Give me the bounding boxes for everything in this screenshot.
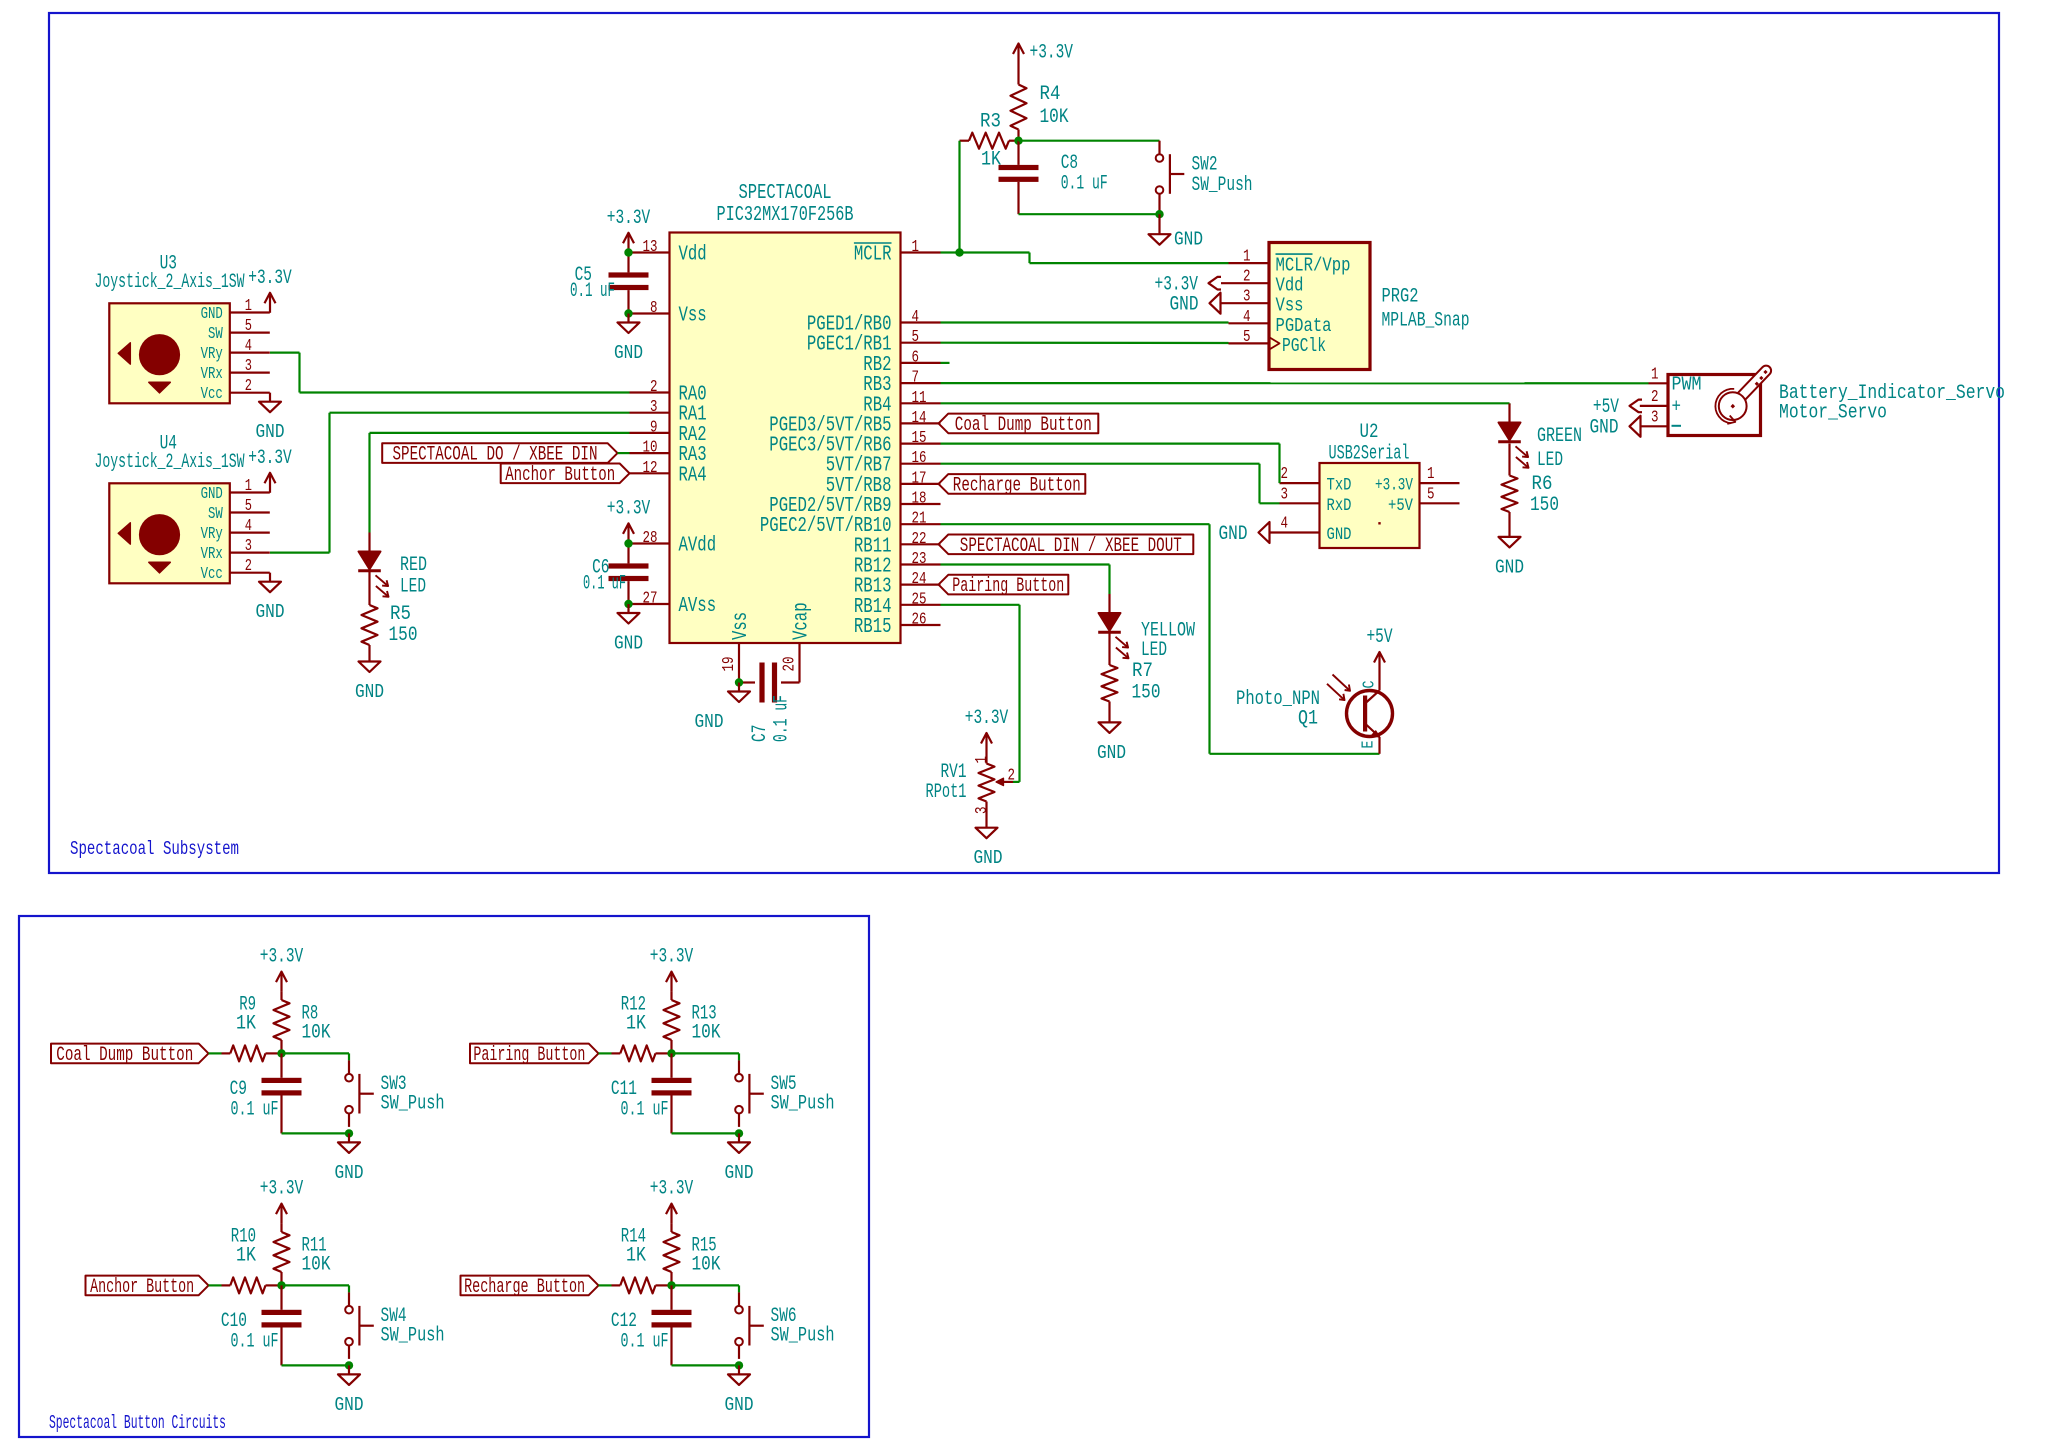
power label +3.3V at PRG2 Vdd — [1155, 274, 1222, 297]
resistor R12 1K — [612, 993, 672, 1061]
svg-text:GND: GND — [201, 484, 223, 503]
wire PGEC1/RB1 to PGClk — [941, 342, 1229, 344]
svg-text:150: 150 — [1132, 682, 1161, 705]
ic U1 pin 28 AVdd (left) — [630, 528, 717, 558]
connector PRG2 MPLAB_Snap body — [1269, 243, 1470, 370]
svg-text:+3.3V: +3.3V — [607, 207, 651, 230]
junction Vdd pin 13 — [624, 248, 632, 256]
ic U1 pin 1 MCLR (right) — [854, 237, 941, 267]
ground GND below RV1 — [974, 828, 1003, 870]
svg-text:10: 10 — [643, 438, 658, 457]
connector PRG2 pin 2 Vdd — [1221, 267, 1304, 297]
ic U1 pin 25 RB14 (right) — [854, 589, 941, 619]
capacitor C11 0.1 uF — [611, 1053, 692, 1133]
wire RB3 to servo PWM — [941, 382, 1649, 384]
svg-text:+3.3V: +3.3V — [965, 707, 1009, 730]
svg-text:+5V: +5V — [1366, 626, 1393, 649]
svg-text:GND: GND — [974, 847, 1003, 869]
junction Anchor Button node — [277, 1281, 285, 1289]
svg-text:5: 5 — [245, 496, 252, 515]
svg-text:0.1 uF: 0.1 uF — [570, 280, 615, 303]
svg-text:GND: GND — [1170, 294, 1199, 317]
svg-text:GND: GND — [1590, 417, 1619, 440]
svg-text:150: 150 — [389, 624, 418, 647]
svg-text:GND: GND — [335, 1162, 364, 1184]
svg-text:28: 28 — [643, 528, 658, 547]
svg-text:GND: GND — [1097, 742, 1126, 764]
svg-text:3: 3 — [1243, 287, 1251, 306]
capacitor C12 0.1 uF — [611, 1285, 692, 1365]
ic U1 pin 6 RB2 (right) — [863, 347, 940, 377]
connector PRG2 pin 5 PGClk — [1229, 327, 1327, 357]
junction Vss pin 19 node — [735, 678, 743, 686]
svg-text:PIC32MX170F256B: PIC32MX170F256B — [717, 203, 854, 227]
svg-text:8: 8 — [650, 298, 658, 317]
connector PRG2 pin 3 Vss — [1221, 287, 1304, 317]
ic U1 pin 20 Vcap (bottom) — [780, 602, 814, 682]
svg-text:4: 4 — [245, 336, 252, 355]
wire RA2 to RED LED — [370, 433, 630, 533]
net label Anchor Button — [86, 1276, 209, 1299]
switch SW3 SW_Push — [345, 1060, 444, 1127]
switch SW5 SW_Push — [735, 1060, 834, 1127]
net label Recharge Button — [461, 1276, 599, 1299]
wire Pairing Button label to R12 — [599, 1052, 612, 1054]
net label SPECTACOAL DO / XBEE DIN — [382, 443, 629, 466]
svg-text:SW: SW — [208, 324, 223, 343]
connector M1 pin 1 PWM — [1649, 364, 1669, 383]
ic U1 pin 15 PGEC3/5VT/RB6 (right) — [769, 428, 940, 458]
svg-text:7: 7 — [912, 368, 920, 387]
svg-text:10K: 10K — [692, 1021, 722, 1044]
svg-text:6: 6 — [912, 347, 920, 366]
resistor R10 1K — [222, 1225, 282, 1293]
svg-text:4: 4 — [1243, 307, 1251, 326]
svg-text:SW_Push: SW_Push — [771, 1324, 835, 1347]
svg-text:VRx: VRx — [201, 364, 223, 383]
net label Anchor Button — [501, 464, 630, 487]
ic U2 pin 5 +5V — [1388, 484, 1460, 516]
connector U3 Joystick_2_Axis_1SW — [95, 252, 270, 403]
connector U4 Joystick_2_Axis_1SW — [95, 432, 270, 583]
ground GND at U3 pin 2 — [256, 393, 285, 444]
switch SW2 SW_Push — [1156, 141, 1253, 215]
svg-text:1: 1 — [912, 237, 920, 256]
ic U1 pin 16 5VT/RB7 (right) — [826, 448, 941, 478]
svg-text:Pairing Button: Pairing Button — [952, 575, 1064, 598]
ic U1 pin 12 RA4 (left) — [630, 458, 707, 488]
svg-text:Vss: Vss — [679, 304, 707, 328]
svg-text:RED: RED — [400, 554, 427, 577]
ground GND below SW2 — [1149, 214, 1204, 251]
resistor R9 1K — [222, 993, 282, 1061]
svg-text:SPECTACOAL: SPECTACOAL — [739, 181, 832, 205]
ic U2 pin 3 RxD — [1280, 484, 1352, 516]
junction R3-R4-C8 node — [1014, 137, 1022, 145]
svg-text:22: 22 — [912, 529, 927, 548]
switch SW6 SW_Push — [735, 1292, 834, 1359]
svg-text:GREEN: GREEN — [1537, 425, 1582, 448]
ic U1 pin 19 Vss (bottom) — [719, 612, 753, 683]
net label Coal Dump Button — [51, 1044, 209, 1067]
svg-text:TxD: TxD — [1327, 477, 1352, 496]
svg-text:1K: 1K — [236, 1012, 257, 1035]
net label Pairing Button — [470, 1044, 599, 1067]
ground GND below SW4 — [335, 1365, 364, 1416]
ground GND below C6 — [614, 604, 643, 655]
svg-text:SW_Push: SW_Push — [381, 1324, 445, 1347]
wire Coal Dump Button label to R9 — [209, 1052, 222, 1054]
svg-text:C: C — [1360, 680, 1379, 688]
power label GND at U2 pin 4 — [1219, 522, 1270, 546]
svg-text:LED: LED — [1141, 639, 1167, 662]
sheet title Spectacoal Subsystem — [70, 838, 239, 860]
resistor R5 150 — [362, 572, 418, 662]
svg-text:14: 14 — [912, 408, 927, 427]
svg-text:1K: 1K — [626, 1244, 647, 1267]
power +3.3V above R8 — [260, 946, 304, 992]
net label Recharge Button (RB8) — [939, 474, 1086, 497]
svg-text:1: 1 — [245, 476, 252, 495]
svg-text:PWM: PWM — [1672, 374, 1702, 396]
svg-text:2: 2 — [1008, 766, 1016, 785]
svg-text:R5: R5 — [390, 603, 411, 626]
ground GND at U4 pin 2 — [256, 573, 285, 624]
capacitor C10 0.1 uF — [221, 1285, 302, 1365]
svg-text:USB2Serial: USB2Serial — [1329, 443, 1410, 466]
ic U1 pin 4 PGED1/RB0 (right) — [807, 307, 941, 337]
junction Pairing Button node — [667, 1049, 675, 1057]
ground GND below C7 — [695, 683, 751, 734]
svg-text:Spectacoal Button Circuits: Spectacoal Button Circuits — [49, 1412, 226, 1434]
svg-text:VRx: VRx — [201, 544, 223, 563]
led GREEN LED — [1498, 404, 1582, 473]
ground GND below R7 — [1097, 722, 1126, 764]
wire junction to SW3 — [282, 1053, 350, 1060]
svg-text:AVss: AVss — [679, 594, 717, 618]
ground GND below R5 — [355, 662, 384, 704]
connector M1 pin 3 - — [1640, 407, 1668, 426]
connector M1 pin 2 + — [1640, 387, 1668, 406]
svg-text:Vdd: Vdd — [1276, 275, 1304, 297]
wire junction to SW4 — [282, 1285, 350, 1292]
svg-text:SW_Push: SW_Push — [1192, 174, 1253, 197]
ic U1 pin 9 RA2 (left) — [630, 417, 707, 447]
svg-text:3: 3 — [245, 356, 252, 375]
svg-text:18: 18 — [912, 489, 927, 508]
ic U1 pin 21 PGEC2/5VT/RB10 (right) — [760, 509, 941, 539]
svg-text:10K: 10K — [302, 1253, 332, 1276]
svg-text:11: 11 — [912, 388, 927, 407]
wire RB4 to GREEN LED — [941, 403, 1510, 404]
svg-text:Vcap: Vcap — [790, 602, 814, 640]
wire U4 VRx to RA1 — [270, 413, 630, 553]
ic U2 USB2Serial body — [1320, 421, 1420, 548]
svg-text:LED: LED — [1537, 449, 1563, 472]
svg-text:10K: 10K — [302, 1021, 332, 1044]
ic U1 pin 8 Vss (left) — [630, 298, 707, 328]
ground GND below SW3 — [335, 1133, 364, 1184]
wire RB10 to Q1 emitter — [941, 524, 1380, 754]
svg-text:20: 20 — [780, 657, 799, 672]
led RED LED — [358, 533, 427, 599]
svg-text:MCLR/Vpp: MCLR/Vpp — [1276, 255, 1351, 277]
power +3.3V above R11 — [260, 1178, 304, 1224]
sheet border Spectacoal Button Circuits — [19, 916, 869, 1437]
junction SW2 bottom node — [1155, 210, 1163, 218]
svg-text:MPLAB_Snap: MPLAB_Snap — [1382, 310, 1470, 333]
capacitor C9 0.1 uF — [230, 1053, 302, 1133]
svg-text:Coal Dump Button: Coal Dump Button — [56, 1044, 193, 1067]
svg-text:PRG2: PRG2 — [1382, 286, 1419, 309]
svg-text:R4: R4 — [1040, 83, 1061, 106]
junction SW5 bottom node — [735, 1129, 743, 1137]
svg-text:4: 4 — [1281, 514, 1289, 533]
svg-text:GND: GND — [725, 1162, 754, 1184]
ground GND below R6 — [1495, 537, 1524, 579]
svg-text:GND: GND — [725, 1394, 754, 1416]
capacitor C8 0.1 uF — [999, 141, 1108, 215]
ground GND below SW6 — [725, 1365, 754, 1416]
wire Anchor Button label to R10 — [209, 1284, 222, 1286]
svg-text:0.1 uF: 0.1 uF — [583, 572, 626, 595]
wire C10 bottom to SW4 bottom — [282, 1364, 350, 1366]
wire C9 bottom to SW3 bottom — [282, 1132, 350, 1134]
svg-text:SW_Push: SW_Push — [771, 1092, 835, 1115]
ic U1 pin 23 RB12 (right) — [854, 549, 941, 579]
resistor R8 10K — [274, 992, 332, 1054]
junction Recharge Button node — [667, 1281, 675, 1289]
svg-text:GND: GND — [1219, 523, 1248, 546]
svg-text:Vss: Vss — [1276, 295, 1304, 317]
connector PRG2 pin 1 MCLR/Vpp — [1229, 247, 1351, 277]
resistor R14 1K — [612, 1225, 672, 1293]
junction SW6 bottom node — [735, 1361, 743, 1369]
svg-text:1: 1 — [1651, 364, 1659, 383]
connector PRG2 pin 4 PGData — [1229, 307, 1332, 337]
svg-text:0.1 uF: 0.1 uF — [231, 1330, 279, 1353]
svg-text:5: 5 — [245, 316, 252, 335]
svg-text:+3.3V: +3.3V — [248, 447, 292, 470]
svg-text:VRy: VRy — [201, 344, 223, 363]
junction AVss pin 27 — [624, 600, 632, 608]
wire RB2 stub — [941, 362, 950, 364]
svg-text:24: 24 — [912, 569, 927, 588]
wire PGED1/RB0 to PGData — [941, 321, 1229, 323]
svg-text:+3.3V: +3.3V — [248, 267, 292, 290]
svg-text:RB15: RB15 — [854, 615, 892, 639]
svg-text:10K: 10K — [692, 1253, 722, 1276]
svg-text:0.1 uF: 0.1 uF — [621, 1330, 669, 1353]
svg-text:Anchor Button: Anchor Button — [90, 1276, 194, 1299]
svg-text:3: 3 — [1651, 407, 1659, 426]
potentiometer RV1 RPot1 — [926, 753, 1016, 828]
svg-text:SW: SW — [208, 504, 223, 523]
svg-text:1K: 1K — [236, 1244, 257, 1267]
svg-text:2: 2 — [1281, 464, 1289, 483]
ic U1 pin 22 RB11 (right) — [854, 529, 941, 559]
resistor R4 10K — [1011, 64, 1070, 141]
wire C8 bottom to SW2 bottom — [1019, 213, 1160, 215]
ic U2 pin 2 TxD — [1280, 464, 1352, 496]
svg-text:RPot1: RPot1 — [926, 781, 967, 804]
svg-text:+3.3V: +3.3V — [650, 1178, 694, 1201]
svg-text:1K: 1K — [626, 1012, 647, 1035]
svg-text:Q1: Q1 — [1298, 708, 1318, 731]
power +3.3V at Vdd — [607, 207, 651, 253]
svg-text:17: 17 — [912, 468, 927, 487]
svg-text:150: 150 — [1530, 494, 1559, 517]
svg-text:GND: GND — [355, 681, 384, 703]
svg-text:2: 2 — [650, 377, 658, 396]
svg-text:PGClk: PGClk — [1282, 335, 1326, 357]
resistor R6 150 — [1502, 444, 1560, 537]
svg-text:Spectacoal Subsystem: Spectacoal Subsystem — [70, 838, 239, 860]
svg-text:Vcc: Vcc — [201, 384, 223, 403]
svg-text:0.1 uF: 0.1 uF — [1061, 173, 1108, 196]
wire U3 VRy to RA0 — [270, 353, 630, 393]
svg-text:5: 5 — [1427, 484, 1435, 503]
wire Recharge Button label to R14 — [599, 1284, 612, 1286]
ground GND below SW5 — [725, 1133, 754, 1184]
svg-text:23: 23 — [912, 549, 927, 568]
svg-text:R6: R6 — [1532, 473, 1553, 496]
svg-text:5: 5 — [912, 327, 920, 346]
svg-text:1: 1 — [972, 756, 991, 764]
svg-text:GND: GND — [1495, 556, 1524, 578]
ic U2 pin 1 +3.3V — [1375, 464, 1460, 496]
svg-text:5: 5 — [1243, 327, 1251, 346]
svg-text:1K: 1K — [981, 149, 1002, 172]
svg-text:+5V: +5V — [1388, 497, 1413, 516]
svg-text:U2: U2 — [1360, 421, 1379, 444]
ic U2 pin 4 GND — [1270, 514, 1352, 546]
svg-text:GND: GND — [614, 342, 643, 364]
junction SW4 bottom node — [345, 1361, 353, 1369]
wire C11 bottom to SW5 bottom — [672, 1132, 740, 1134]
power label GND at servo pin 3 — [1590, 416, 1641, 440]
ic U1 pin 2 RA0 (left) — [630, 377, 707, 407]
wire RB14 to RV1 wiper — [941, 605, 1020, 782]
ic U1 pin 5 PGEC1/RB1 (right) — [807, 327, 941, 357]
capacitor C5 0.1 uF — [570, 253, 649, 314]
svg-text:10K: 10K — [1040, 106, 1070, 129]
junction MCLR node — [955, 248, 963, 256]
net label Coal Dump Button (RB5) — [939, 414, 1099, 437]
sheet border Spectacoal Subsystem — [49, 13, 1999, 873]
power +3.3V at U3 pin 1 — [248, 267, 292, 313]
wire R4 node to SW2 — [1019, 140, 1160, 142]
svg-text:Vcc: Vcc — [201, 564, 223, 583]
svg-text:GND: GND — [614, 633, 643, 655]
svg-text:4: 4 — [245, 516, 252, 535]
switch SW4 SW_Push — [345, 1292, 444, 1359]
ic U1 pin 27 AVss (left) — [630, 589, 717, 619]
svg-text:GND: GND — [1174, 229, 1203, 251]
resistor R3 1K — [960, 111, 1019, 172]
svg-text:3: 3 — [972, 807, 991, 815]
resistor R11 10K — [274, 1224, 332, 1286]
svg-text:25: 25 — [912, 589, 927, 608]
svg-text:3: 3 — [1281, 484, 1289, 503]
capacitor C7 0.1 uF (rotated) — [739, 663, 800, 743]
svg-text:4: 4 — [912, 307, 920, 326]
svg-text:+3.3V: +3.3V — [1375, 477, 1413, 496]
svg-text:19: 19 — [719, 657, 738, 672]
svg-text:GND: GND — [1327, 526, 1352, 545]
svg-text:2: 2 — [1243, 267, 1251, 286]
svg-text:SW2: SW2 — [1192, 153, 1218, 176]
svg-text:15: 15 — [912, 428, 927, 447]
power +3.3V above R13 — [650, 946, 694, 992]
ic U1 pin 10 RA3 (left) — [630, 438, 707, 468]
svg-text:21: 21 — [912, 509, 927, 528]
svg-text:GND: GND — [256, 601, 285, 623]
ic U1 pin 26 RB15 (right) — [854, 610, 941, 640]
junction Coal Dump Button node — [277, 1049, 285, 1057]
wire C12 bottom to SW6 bottom — [672, 1364, 740, 1366]
svg-text:Motor_Servo: Motor_Servo — [1779, 402, 1887, 425]
svg-text:+3.3V: +3.3V — [260, 946, 304, 969]
svg-text:SW_Push: SW_Push — [381, 1092, 445, 1115]
svg-text:2: 2 — [245, 376, 252, 395]
power label GND at PRG2 Vss — [1170, 293, 1221, 317]
wire RB6 to U2 TxD — [941, 444, 1280, 484]
svg-text:E: E — [1359, 740, 1378, 748]
power +3.3V above R15 — [650, 1178, 694, 1224]
power +5V at Q1 collector — [1366, 626, 1393, 672]
wire junction to SW5 — [672, 1053, 740, 1060]
svg-text:GND: GND — [201, 304, 223, 323]
svg-text:Joystick_2_Axis_1SW: Joystick_2_Axis_1SW — [95, 271, 245, 294]
resistor R13 10K — [664, 992, 722, 1054]
power +3.3V above R4 — [1013, 42, 1073, 65]
power +3.3V above RV1 — [965, 707, 1009, 753]
connector M1 Motor_Servo body — [1668, 364, 2005, 436]
wire junction to SW6 — [672, 1285, 740, 1292]
svg-text:Pairing Button: Pairing Button — [473, 1044, 585, 1067]
junction Vss pin 8 — [624, 309, 632, 317]
ic U1 pin 11 RB4 (right) — [863, 388, 940, 418]
svg-text:Recharge Button: Recharge Button — [953, 474, 1081, 497]
svg-text:16: 16 — [912, 448, 927, 467]
svg-text:3: 3 — [650, 397, 658, 416]
svg-text:SPECTACOAL DIN / XBEE DOUT: SPECTACOAL DIN / XBEE DOUT — [960, 535, 1182, 558]
power +3.3V at AVdd — [607, 497, 651, 543]
svg-text:R7: R7 — [1132, 660, 1153, 683]
svg-text:Vss: Vss — [729, 612, 753, 640]
svg-text:0.1 uF: 0.1 uF — [771, 695, 794, 742]
power label +5V at servo pin 2 — [1593, 396, 1642, 419]
wire RB12 to YELLOW LED — [941, 565, 1110, 595]
svg-text:Coal Dump Button: Coal Dump Button — [955, 414, 1092, 437]
svg-text:3: 3 — [245, 536, 252, 555]
svg-text:Joystick_2_Axis_1SW: Joystick_2_Axis_1SW — [95, 451, 245, 474]
svg-text:2: 2 — [245, 556, 252, 575]
wire MCLR net — [941, 141, 1229, 263]
svg-text:+3.3V: +3.3V — [1030, 42, 1074, 65]
svg-text:Vdd: Vdd — [679, 243, 707, 267]
ic U1 pin 24 RB13 (right) — [854, 569, 941, 599]
sheet title Spectacoal Button Circuits — [49, 1412, 226, 1434]
svg-text:27: 27 — [643, 589, 658, 608]
resistor R15 10K — [664, 1224, 722, 1286]
led YELLOW LED — [1098, 594, 1195, 662]
svg-text:+3.3V: +3.3V — [607, 497, 651, 520]
ic U1 pin 14 PGED3/5VT/RB5 (right) — [769, 408, 940, 438]
svg-text:GND: GND — [335, 1394, 364, 1416]
svg-text:RxD: RxD — [1327, 497, 1352, 516]
